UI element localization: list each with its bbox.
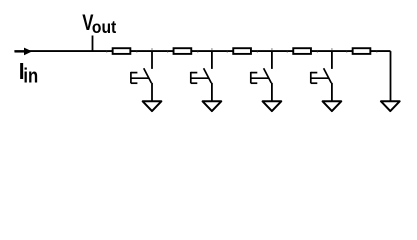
node junction 4 [331,48,333,50]
ground 2 [203,101,222,111]
wire S2 to ground [211,83,213,101]
resistor R3 pin nubs [227,50,257,52]
ground 1 [143,101,162,111]
node junction 1 [151,48,153,50]
wire branch 2 drop [211,51,213,69]
resistor R5 [353,48,371,54]
resistor R4 [293,48,311,54]
ground 4 [323,101,342,111]
ground 5 [381,101,400,111]
input arrow [15,48,33,56]
node junction 3 [271,48,273,50]
resistor R2 [174,48,192,54]
resistor R1 pin nubs [107,50,137,52]
wire branch 1 drop [151,51,153,69]
wire branch 3 drop [271,51,273,69]
wire S1 to ground [151,83,153,101]
switch S4 [311,68,332,83]
switch S2 [191,68,212,83]
node Vout tick [92,36,94,52]
resistor R4 pin nubs [287,50,317,52]
wire right drop [390,51,392,101]
wire main rail [14,50,390,52]
I_in label [19,58,38,87]
resistor R2 pin nubs [168,50,198,52]
svg-text:out: out [92,17,117,37]
V_out label [82,10,116,37]
resistor R3 [233,48,251,54]
ground 3 [263,101,282,111]
svg-text:in: in [23,66,38,88]
resistor R5 pin nubs [347,50,377,52]
wire branch 4 drop [331,51,333,69]
wire S4 to ground [331,83,333,101]
switch S3 [251,68,271,83]
switch S1 [131,68,152,83]
wire S3 to ground [271,83,273,101]
node junction 2 [211,48,213,50]
resistor R1 [113,48,131,54]
